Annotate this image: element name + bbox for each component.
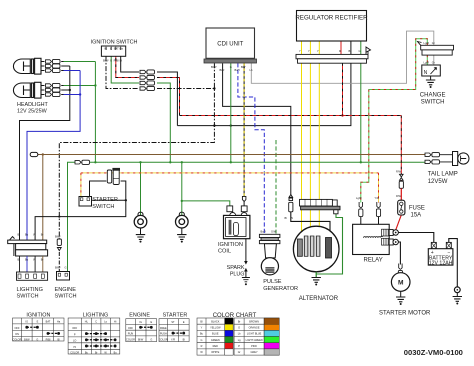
svg-text:OFF: OFF (72, 327, 77, 330)
color chart swatch BLACK (225, 318, 233, 324)
wire: alternator black lead (291, 212, 330, 238)
engine stop switch continuity table (126, 313, 157, 342)
wire: regulator yellow pin1 down to alternator connector (301, 41, 303, 237)
wire: Bl/W engine switch below inline connector (58, 252, 60, 272)
svg-text:FREE: FREE (160, 327, 167, 330)
ground symbol below circle 1 (136, 235, 145, 243)
svg-text:R/W: R/W (396, 170, 402, 174)
svg-text:STARTER: STARTER (92, 197, 118, 203)
alternator G1 (293, 226, 339, 272)
svg-text:SWITCH: SWITCH (421, 99, 445, 105)
change switch connector (418, 42, 454, 56)
svg-text:FUSE: FUSE (409, 205, 425, 211)
svg-text:Br: Br (41, 233, 44, 237)
svg-text:Bl: Bl (120, 59, 123, 63)
svg-text:IGNITION SWITCH: IGNITION SWITCH (91, 40, 138, 46)
svg-text:HI: HI (73, 346, 76, 349)
color chart swatch RED (225, 343, 233, 349)
svg-text:IG: IG (139, 321, 142, 324)
wire: CDI pin5 Bl/Y down to ignition coil (243, 63, 245, 206)
CDI pin labels (211, 65, 253, 72)
svg-text:Y: Y (308, 49, 310, 53)
connector group A row1 (140, 70, 155, 74)
label PULSE GENERATOR (263, 279, 298, 292)
ignition switch IGN (101, 46, 125, 56)
pulse generator connector (259, 234, 280, 243)
wire: green feed to ignition coil left terminal (182, 201, 230, 206)
svg-text:0030Z-VM0-0100: 0030Z-VM0-0100 (404, 348, 463, 357)
wire: headlight green feed (G) bulb1 (63, 61, 95, 63)
svg-text:WHITE: WHITE (211, 351, 219, 354)
svg-text:G: G (110, 59, 112, 63)
svg-text:COLOR: COLOR (70, 351, 79, 354)
svg-text:Bl/W: Bl/W (103, 59, 109, 63)
wire: R/W red drop from red bus to fuse (400, 116, 402, 201)
svg-text:REGULATOR RECTIFIER: REGULATOR RECTIFIER (295, 15, 368, 22)
starter motor M1 (391, 273, 410, 305)
brown wire end cap terminal (30, 152, 38, 156)
svg-text:LIGHTING: LIGHTING (17, 287, 43, 293)
svg-text:BLACK: BLACK (211, 320, 220, 323)
svg-text:Y/R: Y/R (375, 196, 379, 200)
connector group A row4 (140, 86, 155, 90)
wire: green drop to ground point 2 and coil feed (181, 161, 183, 216)
svg-text:SPARK: SPARK (227, 265, 245, 271)
wire: black bus y=125.6 to regulator Bl pin (177, 63, 351, 127)
svg-text:LIGHT GREEN: LIGHT GREEN (246, 339, 263, 342)
svg-text:Bu: Bu (25, 233, 29, 237)
svg-text:BLUE: BLUE (212, 333, 219, 336)
svg-text:PLUG: PLUG (230, 271, 245, 277)
label STARTER SWITCH (92, 197, 118, 210)
svg-text:Y/R: Y/R (171, 338, 175, 341)
wire: blue from headlights to lighting switch pin2 (27, 71, 80, 241)
wire label Bl/W (285, 216, 294, 220)
svg-text:IG: IG (104, 47, 107, 51)
svg-text:SWITCH: SWITCH (17, 294, 39, 300)
svg-text:Br: Br (95, 351, 98, 354)
svg-text:Bl/W: Bl/W (138, 338, 144, 341)
svg-text:HEADLIGHT: HEADLIGHT (17, 102, 49, 108)
svg-text:Br: Br (238, 320, 241, 323)
svg-text:Bl/W: Bl/W (24, 338, 30, 341)
svg-text:IG: IG (25, 321, 28, 324)
wire: regulator black pin down to black bus (350, 41, 352, 54)
wire: starter switch black jumper up to inline connector (90, 181, 107, 197)
label CHANGE SWITCH (420, 92, 446, 105)
svg-text:ALTERNATOR: ALTERNATOR (299, 296, 339, 302)
svg-text:CDI UNIT: CDI UNIT (217, 42, 243, 48)
svg-text:Gr: Gr (432, 61, 435, 65)
wire: headlight black bulb2 (63, 89, 71, 91)
svg-text:COLOR: COLOR (159, 338, 168, 341)
wire: ignition switch pin1 Bl/W to connector row4 (106, 56, 139, 88)
svg-text:RUN: RUN (128, 333, 134, 336)
svg-text:COLOR: COLOR (126, 338, 135, 341)
svg-text:E: E (110, 47, 112, 51)
svg-text:GREEN: GREEN (211, 339, 220, 342)
svg-text:Bl/W: Bl/W (55, 266, 61, 270)
svg-text:IGNITION: IGNITION (26, 313, 50, 319)
svg-text:ON: ON (15, 333, 19, 336)
wire: Y/R drop to relay bullet (378, 173, 380, 203)
svg-text:Gr: Gr (238, 351, 241, 354)
svg-text:Bu/Y: Bu/Y (235, 68, 241, 72)
wire: green drop to ground point 1 (139, 161, 141, 216)
svg-text:R/Bl: R/Bl (46, 338, 51, 341)
svg-text:N: N (424, 70, 428, 76)
wire: green from connector row3 down to ground bus (157, 83, 172, 164)
svg-text:COLOR: COLOR (13, 338, 22, 341)
wire: ignition switch pin3 R/Bl to connector row2 (116, 56, 139, 77)
svg-text:OFF: OFF (128, 327, 133, 330)
wire: black Bl from connector row1 to black bus corner (157, 72, 177, 126)
svg-text:GREY: GREY (251, 351, 258, 354)
headlight bulb 2 (13, 82, 63, 98)
alternator connector bar (300, 199, 341, 213)
svg-text:LIGHTING: LIGHTING (83, 313, 108, 319)
svg-text:R: R (339, 49, 341, 53)
label IGNITION COIL (218, 242, 243, 255)
label LIGHTING SWITCH (17, 287, 43, 300)
svg-text:OFF: OFF (15, 327, 20, 330)
relay top bullet connectors (359, 202, 381, 224)
svg-text:BAT: BAT (114, 47, 119, 51)
wire: starter switch black to junction (92, 199, 128, 201)
svg-text:BAT: BAT (46, 321, 51, 324)
ground point circle 1 (134, 212, 147, 234)
svg-text:Bl/W: Bl/W (55, 235, 61, 239)
svg-text:IGNITION: IGNITION (218, 242, 243, 248)
svg-text:ENGINE: ENGINE (129, 313, 150, 319)
svg-text:Bu: Bu (25, 258, 29, 262)
svg-text:BROWN: BROWN (249, 320, 259, 323)
regulator connector bar (296, 47, 371, 63)
alternator inline connector (Bl) (289, 195, 293, 212)
svg-text:RELAY: RELAY (364, 257, 383, 263)
svg-text:SWITCH: SWITCH (55, 294, 77, 300)
color chart swatch GREEN (225, 337, 233, 343)
color chart table (197, 313, 279, 355)
svg-text:G: G (65, 266, 67, 270)
svg-text:GENERATOR: GENERATOR (263, 286, 298, 292)
wire: regulator yellow pin2 (309, 41, 311, 237)
svg-text:ORANGE: ORANGE (249, 327, 260, 330)
svg-text:G: G (359, 49, 361, 53)
inline connector on Y/R line (107, 168, 120, 185)
wire: ignition switch pin4 Bl to connector row1 (121, 56, 139, 72)
svg-text:LIGHT BLUE: LIGHT BLUE (247, 333, 262, 336)
wire: red R/Bl from connector row2 to red bus corner (157, 78, 180, 116)
svg-text:Y: Y (317, 49, 319, 53)
inline connector on green bus (75, 160, 90, 164)
headlight bulb 2 connectors (46, 83, 61, 96)
fuse F1 15A (398, 188, 405, 215)
svg-text:Br: Br (41, 258, 44, 262)
wire: Y/R bus y=172.9 starter switch to relay (81, 172, 379, 174)
wire: CDI pin2 Bl to alternator drop (223, 63, 291, 198)
wire: Lg/R change switch to relay (361, 39, 428, 203)
Bl/Y inline connector above coil (242, 196, 246, 201)
regulator rectifier (295, 11, 368, 42)
wire: tail lamp leads (439, 155, 452, 162)
svg-text:Ha: Ha (120, 47, 124, 51)
change switch pin labels (424, 41, 435, 65)
svg-text:12V5W: 12V5W (428, 179, 448, 185)
wire: Bl/W from connector row4 to CDI pin1 vertical (157, 87, 216, 89)
label ENGINE SWITCH (55, 287, 77, 300)
svg-text:Bu/Y: Bu/Y (261, 230, 267, 234)
wire: black from headlights to lighting switch pin1 (20, 66, 70, 240)
svg-text:Bl/Y: Bl/Y (241, 65, 246, 69)
ground symbol below circle 2 (177, 235, 186, 243)
svg-text:PUSH: PUSH (160, 333, 167, 336)
lighting switch SW (8, 237, 48, 256)
svg-text:12V 25/25W: 12V 25/25W (17, 108, 48, 114)
lighting switch wire labels (18, 233, 44, 262)
wire: regulator red pin down to red bus (341, 41, 343, 116)
pulse generator pin labels (261, 230, 277, 234)
svg-text:SWITCH: SWITCH (92, 204, 114, 210)
wire: headlight green feed (G) bulb2 (63, 84, 97, 86)
pulse generator PG (261, 244, 278, 275)
svg-text:M: M (398, 280, 404, 287)
lighting switch lower connector (17, 256, 48, 280)
svg-text:LO: LO (73, 340, 76, 343)
color chart swatch PINK (264, 343, 279, 349)
svg-text:12V 12AH: 12V 12AH (429, 261, 453, 267)
wire: CDI pin6 gray to change switch connector (251, 31, 433, 83)
wire: brown drop to lighting switch pin4 (42, 155, 44, 241)
svg-text:G/W: G/W (271, 230, 277, 234)
svg-text:COIL: COIL (218, 248, 231, 254)
headlight bulb 1 connectors (46, 59, 61, 72)
wire: green vertical from headlights to ground bus (94, 62, 96, 164)
lighting switch continuity table (68, 313, 120, 355)
svg-text:ST: ST (171, 321, 175, 324)
svg-text:C: C (95, 321, 97, 324)
wire: alternator green to ground (316, 210, 342, 278)
svg-text:G: G (36, 338, 38, 341)
engine switch SW (57, 272, 70, 281)
svg-text:RED: RED (213, 345, 218, 348)
color chart swatch WHITE (225, 349, 233, 355)
color chart swatch LIGHT BLUE (264, 330, 279, 336)
label TAIL LAMP 12V5W (428, 172, 458, 185)
wire: regulator green pin down to ground bus (360, 41, 362, 164)
wire: CDI pin3 G down to ground bus (230, 63, 232, 163)
label IGNITION SWITCH (91, 40, 138, 46)
label ALTERNATOR (299, 296, 339, 302)
svg-text:R/Bl: R/Bl (114, 59, 119, 63)
color chart swatch ORANGE (264, 324, 279, 330)
svg-text:STARTER MOTOR: STARTER MOTOR (379, 310, 431, 316)
label FUSE 15A (409, 205, 425, 218)
svg-text:R/W: R/W (396, 194, 402, 198)
wire: black from lighting switch pin3 to starter switch loop (35, 181, 126, 240)
ignition coil T1 (224, 206, 250, 239)
regulator pin marks (299, 49, 361, 53)
wire: gray and Lg/R into change switch box (427, 55, 434, 65)
ignition switch continuity table (13, 313, 65, 342)
wire: Y/R drop to starter switch (80, 173, 82, 197)
ground point circle 2 (176, 212, 189, 234)
wire: battery minus to frame ground (449, 239, 458, 287)
svg-text:Gr: Gr (432, 41, 435, 45)
wire: black relay terminal2 to starter motor (398, 242, 400, 265)
wire: Bl/W bus y=142.5 from engine switch corner to CDI pin1 (59, 63, 214, 239)
wire: ignition switch pin2 G to connector row3 (111, 56, 139, 83)
svg-text:Bl/W: Bl/W (211, 65, 217, 69)
svg-text:Bl/R: Bl/R (220, 68, 225, 72)
svg-text:STARTER: STARTER (163, 313, 188, 319)
tail lamp bulb (453, 152, 470, 166)
label STARTER MOTOR (379, 310, 431, 316)
wire: black relay terminal1 to battery plus (398, 233, 434, 243)
connector group A row2 (140, 75, 155, 79)
svg-text:Lg/R: Lg/R (356, 196, 362, 200)
battery BT1 (428, 242, 453, 266)
relay K1 (353, 224, 399, 254)
headlight bulb 1 (13, 58, 63, 74)
wire: brown bus y=154.5 to tail lamp (38, 153, 426, 155)
change switch SW (422, 65, 441, 80)
label SPARK PLUG (227, 265, 245, 278)
svg-text:TAIL LAMP: TAIL LAMP (428, 172, 458, 178)
wire: regulator yellow pin3 (318, 41, 320, 237)
svg-text:YELLOW: YELLOW (210, 327, 221, 330)
svg-text:ENGINE: ENGINE (55, 287, 77, 293)
wire: headlight black bulb1 (63, 65, 70, 67)
wire: CDI pin4 Bu/Y to pulse generator (238, 63, 264, 233)
color chart swatch BLUE (225, 330, 233, 336)
wire: green ground bus y=162.3 to tail lamp (68, 162, 427, 271)
battery ground eyelet and ground (453, 287, 462, 305)
relay wire labels (356, 196, 379, 200)
label RELAY (364, 257, 383, 263)
svg-text:G: G (230, 65, 232, 69)
alternator ground (312, 272, 321, 286)
label HEADLIGHT 12V 25/25W (17, 102, 49, 114)
svg-text:O: O (238, 327, 240, 330)
color chart swatch YELLOW (225, 324, 233, 330)
svg-text:CHANGE: CHANGE (420, 92, 446, 98)
color chart swatch BROWN (264, 318, 279, 324)
svg-text:G: G (150, 338, 152, 341)
part number (404, 348, 463, 357)
wire: G/W from pulse generator up (275, 140, 277, 234)
color chart swatch LIGHT GREEN (264, 337, 279, 343)
tail lamp connectors (425, 153, 440, 164)
ignition switch pin labels (103, 47, 123, 63)
wire: red fuse to relay terminal (396, 215, 402, 230)
color chart swatch GREY (264, 349, 279, 355)
wire: red bus y=115.5 across to fuse drop (180, 114, 402, 116)
svg-text:PINK: PINK (251, 345, 257, 348)
spark plug P1 (242, 239, 250, 286)
R/W inline connectors above fuse (399, 174, 403, 188)
svg-text:G: G (201, 339, 203, 342)
engine switch inline connector on Bl/W (57, 239, 61, 251)
wire: headlight blue bulb2 (63, 93, 81, 95)
CDI unit U1 (204, 28, 257, 63)
wire: headlight blue bulb1 (63, 70, 80, 72)
svg-text:Lg/R: Lg/R (424, 61, 430, 65)
svg-text:Lg/R: Lg/R (424, 41, 430, 45)
starter switch SW (79, 197, 92, 207)
svg-text:15A: 15A (411, 212, 422, 218)
wire label R/W (396, 170, 402, 198)
svg-text:R: R (201, 345, 203, 348)
connector group A row3 (140, 81, 155, 85)
starter switch continuity table (159, 313, 189, 342)
svg-text:Y: Y (299, 49, 301, 53)
ground below change switch (426, 80, 435, 88)
starter motor bullet (398, 264, 402, 279)
engine switch wire labels (55, 235, 67, 270)
svg-text:PULSE: PULSE (263, 279, 282, 285)
